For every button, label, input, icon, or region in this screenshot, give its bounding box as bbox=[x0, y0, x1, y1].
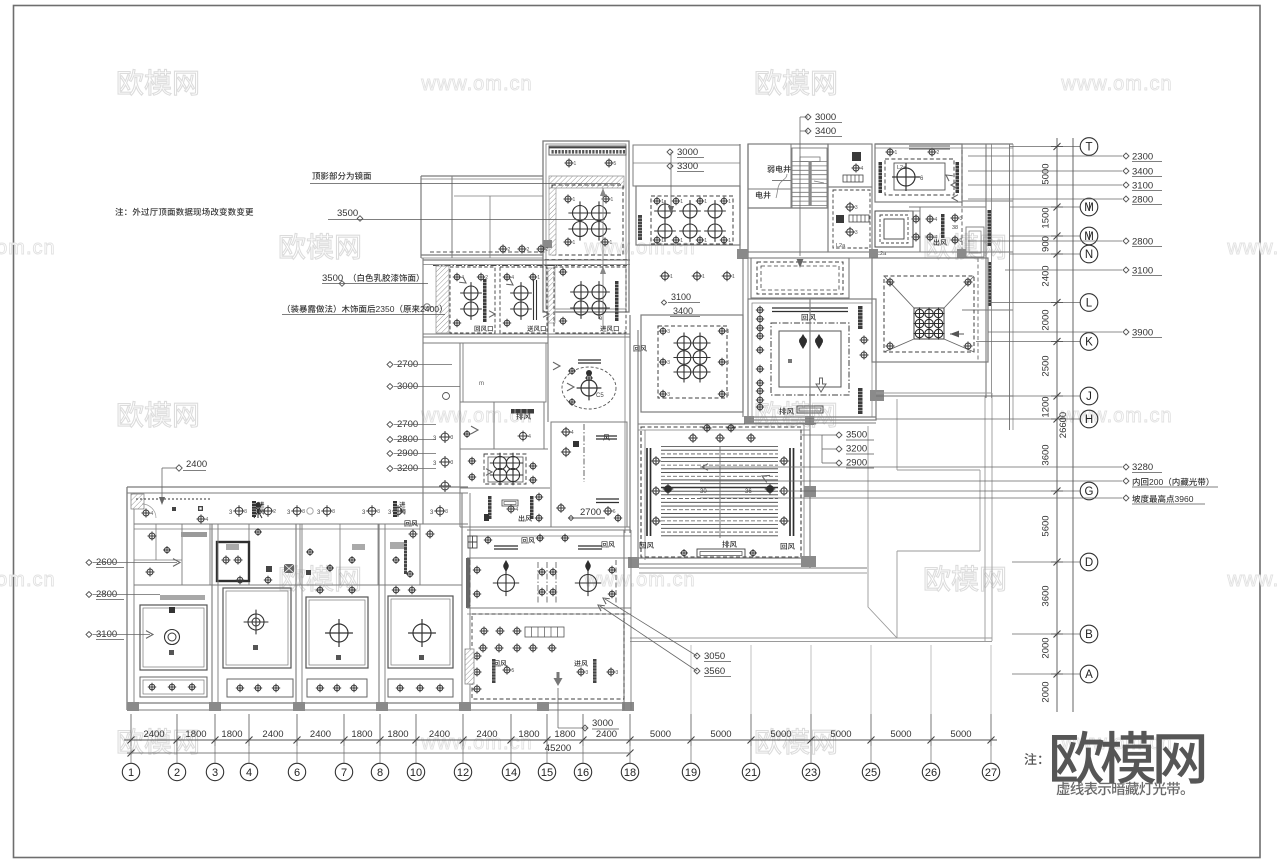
label 电井 bbox=[756, 191, 771, 198]
corridor walls x743-748 bbox=[743, 258, 748, 417]
svg-text:3100: 3100 bbox=[671, 292, 691, 302]
leader 3400 in room N bbox=[670, 306, 700, 317]
svg-text:3900: 3900 bbox=[1132, 328, 1153, 339]
inner partition of shaft room bbox=[772, 180, 791, 182]
svg-text:www.om.cn: www.om.cn bbox=[1226, 569, 1277, 591]
svg-text:3500: 3500 bbox=[337, 208, 358, 219]
stair block walls bbox=[748, 144, 828, 208]
room J grille bar bbox=[941, 214, 945, 238]
svg-text:3050: 3050 bbox=[704, 651, 725, 662]
svg-text:3: 3 bbox=[451, 435, 454, 441]
label 排风 room R bbox=[516, 413, 531, 420]
svg-text:1: 1 bbox=[704, 199, 707, 205]
grid bubble 26 bbox=[922, 746, 939, 781]
grid bubble 4 bbox=[240, 746, 257, 781]
svg-text:4: 4 bbox=[935, 217, 938, 223]
svg-text:4: 4 bbox=[571, 430, 574, 436]
corridor double wall y=252-258 bbox=[737, 249, 1004, 259]
corridor above N small fixtures bbox=[660, 271, 735, 282]
grid bubble 21 bbox=[742, 746, 759, 781]
svg-text:1800: 1800 bbox=[351, 729, 372, 740]
svg-text:2800: 2800 bbox=[1132, 237, 1153, 248]
room K spotlight grid 3x3 bbox=[913, 307, 944, 339]
room M exhaust grille box bbox=[797, 406, 823, 413]
grid bubble 14 bbox=[502, 746, 519, 781]
bottom wall column blocks bbox=[127, 702, 634, 711]
grid bubble 27 bbox=[982, 746, 999, 781]
grille bar above circle room bbox=[578, 359, 601, 361]
svg-text:1: 1 bbox=[661, 199, 664, 205]
room Q walls (big empty room) bbox=[423, 258, 630, 527]
leader 2800 right bbox=[968, 237, 1162, 248]
mid band top wall y258 bbox=[423, 252, 630, 266]
hall V doorway fixtures top bbox=[690, 424, 745, 433]
big bottom room dashed ceiling border bbox=[472, 614, 624, 699]
svg-text:2800: 2800 bbox=[1132, 195, 1153, 206]
wall dashed band below room A bbox=[545, 260, 628, 266]
svg-text:www.om.cn: www.om.cn bbox=[0, 237, 56, 259]
room G chandelier bbox=[886, 148, 953, 191]
right dimension values (rotated) bbox=[1041, 163, 1070, 702]
svg-text:www.om.cn: www.om.cn bbox=[1226, 237, 1277, 259]
fixtures below comb strip bbox=[565, 159, 617, 168]
bedroom 1 wardrobe strip bbox=[140, 677, 207, 697]
svg-text:23: 23 bbox=[805, 767, 817, 779]
leader 2700 interior bbox=[568, 507, 605, 521]
block corridor marks bbox=[468, 534, 602, 549]
bottom leader 3000 bbox=[558, 688, 619, 731]
label 回风 hall V bottom-left bbox=[640, 542, 654, 549]
svg-text:1: 1 bbox=[128, 767, 134, 779]
big bottom room fixture rows bbox=[473, 627, 557, 694]
door hinge symbol at band left wall bbox=[421, 304, 433, 310]
svg-text:3: 3 bbox=[667, 392, 670, 398]
svg-text:1: 1 bbox=[661, 238, 664, 244]
svg-text:5000: 5000 bbox=[770, 729, 791, 740]
room R walls 排风 bbox=[460, 402, 548, 449]
room F ceiling dashed bbox=[833, 190, 870, 248]
svg-text:38: 38 bbox=[952, 225, 958, 231]
svg-text:3: 3 bbox=[726, 392, 729, 398]
svg-text:1: 1 bbox=[670, 274, 673, 280]
svg-text:36: 36 bbox=[745, 489, 752, 495]
svg-text:4: 4 bbox=[528, 434, 531, 440]
svg-text:2400: 2400 bbox=[429, 729, 450, 740]
right-mid leader stack 3500/3200/2900 bbox=[800, 430, 874, 469]
right dimension chain line bbox=[1051, 138, 1073, 712]
mid band bottom wall y334 bbox=[423, 333, 630, 335]
bedroom 1 ceiling bbox=[140, 595, 207, 670]
svg-text:15: 15 bbox=[541, 767, 553, 779]
watermark 欧模网 bbox=[118, 69, 198, 95]
room L walls bbox=[751, 258, 849, 298]
room A comb ceiling strip bbox=[549, 146, 626, 155]
bottom leaders 3050/3560 bbox=[596, 595, 731, 677]
room G walls bbox=[875, 144, 962, 202]
svg-text:3200: 3200 bbox=[846, 444, 867, 455]
mid room 2 chandelier bbox=[575, 560, 616, 606]
svg-text:3: 3 bbox=[960, 216, 963, 222]
bedroom 2 ceiling bbox=[223, 576, 291, 668]
label 送风口 room2 bbox=[527, 326, 546, 332]
svg-text:900: 900 bbox=[1041, 236, 1052, 252]
svg-text:5: 5 bbox=[512, 668, 515, 674]
svg-text:1: 1 bbox=[680, 199, 683, 205]
svg-text:3: 3 bbox=[586, 670, 589, 676]
mid band room 1 chandeliers bbox=[453, 273, 495, 327]
label 回风 room M bbox=[802, 314, 816, 321]
room1 small marks bbox=[142, 506, 209, 524]
leader 2800 right bbox=[968, 195, 1162, 206]
svg-text:1: 1 bbox=[680, 238, 683, 244]
svg-text:0: 0 bbox=[390, 304, 395, 314]
svg-text:3: 3 bbox=[332, 509, 335, 515]
hall V fixtures bbox=[651, 433, 789, 526]
left bottom leaders 2600/2800/3100 bbox=[86, 557, 180, 568]
svg-text:2400: 2400 bbox=[262, 729, 283, 740]
grid bubble A bbox=[1080, 665, 1098, 683]
top leader 3000/3300 bbox=[667, 147, 704, 214]
bedroom 2 wardrobe strip bbox=[227, 679, 293, 697]
svg-text:L2a: L2a bbox=[836, 243, 846, 249]
svg-text:www.om.cn: www.om.cn bbox=[1060, 405, 1172, 427]
room N chandeliers 2x3 bbox=[673, 332, 710, 382]
room N border fixtures bbox=[659, 327, 730, 398]
label 排风 hall V bottom bbox=[722, 541, 737, 548]
labels 回风 at N left bbox=[634, 345, 647, 351]
room B terrace walls bbox=[633, 145, 740, 186]
leader 3100 right bbox=[968, 181, 1162, 192]
svg-text:4: 4 bbox=[516, 507, 519, 513]
room N walls bbox=[641, 315, 743, 412]
svg-text:1200: 1200 bbox=[1041, 396, 1052, 417]
bottom-center block walls bbox=[467, 530, 631, 710]
svg-text:3300: 3300 bbox=[677, 161, 698, 172]
svg-text:2400: 2400 bbox=[596, 729, 617, 740]
bedroom 4 wardrobe strip bbox=[388, 679, 453, 697]
svg-text:5000: 5000 bbox=[830, 729, 851, 740]
svg-text:2400: 2400 bbox=[476, 729, 497, 740]
svg-text:3: 3 bbox=[212, 767, 218, 779]
svg-text:3: 3 bbox=[616, 670, 619, 676]
bedroom 3 wardrobe strip bbox=[307, 679, 367, 697]
svg-text:4: 4 bbox=[935, 235, 938, 241]
room A hatched beam band bbox=[549, 176, 624, 188]
ceiling-height leader with up arrows in room A bbox=[600, 188, 606, 330]
leader 内回200（内藏光带） bbox=[700, 477, 1218, 487]
hall V walls bbox=[638, 299, 816, 568]
svg-text:0: 0 bbox=[1189, 494, 1194, 504]
svg-text:2: 2 bbox=[174, 767, 180, 779]
leader 2300 right bbox=[968, 152, 1162, 163]
watermark 欧模网 bbox=[118, 728, 198, 754]
svg-text:2400: 2400 bbox=[310, 729, 331, 740]
note 虚线表示暗藏灯光带 bbox=[1057, 782, 1186, 796]
svg-text:1: 1 bbox=[732, 274, 735, 280]
svg-text:2400: 2400 bbox=[143, 729, 164, 740]
right narrow rooms window bars bbox=[951, 182, 991, 306]
room M pendant fixtures bbox=[788, 334, 823, 363]
mid small room with slats bbox=[538, 562, 557, 604]
grid bubble B bbox=[1080, 625, 1098, 643]
svg-text:4: 4 bbox=[511, 275, 514, 281]
hatch square top-left corner bbox=[131, 494, 144, 509]
room M walls bbox=[748, 299, 876, 420]
small fixture row above band bbox=[499, 245, 549, 254]
svg-text:1: 1 bbox=[895, 150, 898, 156]
logo 欧模网 bbox=[1052, 731, 1204, 784]
svg-text:0: 0 bbox=[1159, 477, 1164, 487]
room U marks bbox=[556, 427, 622, 522]
left leader stack 2700/3000 bbox=[387, 359, 452, 370]
leader 3900 right bbox=[988, 328, 1162, 339]
leader 3500 白色乳胶漆饰面 bbox=[322, 273, 428, 286]
mid band room 2 chandeliers bbox=[503, 273, 549, 327]
svg-text:12: 12 bbox=[457, 767, 469, 779]
svg-text:1: 1 bbox=[702, 274, 705, 280]
mid band room 3 dashed ceiling bbox=[554, 267, 626, 333]
mid rooms walls bbox=[466, 558, 631, 614]
leader 木饰面后2350 bbox=[282, 304, 445, 315]
svg-text:1800: 1800 bbox=[185, 729, 206, 740]
note text top-left bbox=[115, 208, 253, 216]
svg-text:3100: 3100 bbox=[1132, 181, 1153, 192]
hall V dashed ceiling border bbox=[641, 427, 801, 557]
svg-text:3: 3 bbox=[855, 205, 858, 211]
svg-text:19: 19 bbox=[685, 767, 697, 779]
watermark 欧模网 bbox=[925, 233, 1005, 259]
hall V bottom wall bbox=[628, 556, 816, 568]
svg-text:T: T bbox=[1085, 142, 1092, 154]
room K pyramid diagonals and center square bbox=[884, 276, 974, 352]
watermark 欧模网 bbox=[925, 565, 1005, 591]
svg-text:7: 7 bbox=[341, 767, 347, 779]
room F marks bbox=[836, 202, 869, 249]
leader 3100 in corridor bbox=[661, 292, 700, 305]
svg-text:4: 4 bbox=[206, 517, 209, 523]
label 出风 room J bbox=[934, 239, 947, 246]
label 排风 room M bbox=[779, 408, 794, 415]
svg-text:2: 2 bbox=[527, 247, 530, 253]
svg-text:A: A bbox=[1085, 669, 1093, 681]
hall V striped ceiling (wood slats) bbox=[661, 446, 778, 538]
svg-text:www.om.cn: www.om.cn bbox=[420, 405, 532, 427]
svg-text:2: 2 bbox=[485, 275, 488, 281]
svg-text:2300: 2300 bbox=[1132, 152, 1153, 163]
watermark 欧模网 bbox=[118, 401, 198, 427]
label 回风 near x410 bbox=[404, 520, 435, 574]
room1 dashed ceiling border top bbox=[136, 498, 210, 500]
svg-text:0: 0 bbox=[434, 304, 439, 314]
svg-text:26600: 26600 bbox=[1058, 412, 1069, 438]
right narrow rooms walls bbox=[875, 144, 1013, 430]
room R fixture and grille bbox=[463, 409, 534, 441]
svg-text:2000: 2000 bbox=[1041, 681, 1052, 702]
svg-text:1: 1 bbox=[611, 197, 614, 203]
svg-text:6: 6 bbox=[294, 767, 300, 779]
svg-text:4: 4 bbox=[151, 511, 154, 517]
svg-text:2900: 2900 bbox=[846, 458, 867, 469]
svg-text:5000: 5000 bbox=[950, 729, 971, 740]
svg-text:B: B bbox=[1085, 629, 1093, 641]
label 进风口 room3 bbox=[600, 326, 619, 332]
room A left wing walls bbox=[421, 176, 543, 258]
svg-text:1: 1 bbox=[573, 197, 576, 203]
room I nested-square ceiling bbox=[875, 211, 913, 257]
svg-text:3: 3 bbox=[451, 460, 454, 466]
svg-text:3: 3 bbox=[667, 329, 670, 335]
room K corner fixtures bbox=[886, 278, 973, 351]
svg-text:3600: 3600 bbox=[1041, 444, 1052, 465]
svg-text:3400: 3400 bbox=[815, 126, 836, 137]
label 回风 room U bbox=[603, 434, 610, 440]
hall V side curtain bars bbox=[647, 448, 794, 536]
svg-text:3280: 3280 bbox=[1132, 462, 1153, 473]
svg-text:3400: 3400 bbox=[673, 306, 693, 316]
svg-text:10: 10 bbox=[410, 767, 422, 779]
room B chandeliers bbox=[653, 197, 732, 244]
svg-text:L: L bbox=[1086, 298, 1093, 310]
room M ceiling dash-dot rect bbox=[771, 323, 849, 395]
big room grille bars bbox=[492, 659, 619, 683]
svg-text:21: 21 bbox=[745, 767, 757, 779]
svg-text:2: 2 bbox=[937, 150, 940, 156]
svg-text:26: 26 bbox=[925, 767, 937, 779]
svg-text:4: 4 bbox=[861, 166, 864, 172]
watermark 欧模网 bbox=[756, 401, 836, 427]
svg-text:J: J bbox=[1086, 391, 1092, 403]
grid bubble T bbox=[1080, 138, 1098, 156]
grid bubble M bbox=[1080, 198, 1098, 216]
grid bubble 12 bbox=[454, 746, 471, 781]
leader 顶影部分为镜面 bbox=[310, 172, 620, 184]
big room hatch door bbox=[465, 649, 474, 684]
bedroom dividing walls bbox=[212, 493, 470, 710]
leader 2400 left bbox=[159, 459, 207, 505]
label 进风 big room bbox=[574, 660, 588, 666]
column block at A mid wall bbox=[543, 240, 552, 248]
svg-text:www.om.cn: www.om.cn bbox=[583, 569, 695, 591]
room G balcony rail bbox=[909, 146, 950, 149]
svg-text:2000: 2000 bbox=[1041, 637, 1052, 658]
grid bubble 6 bbox=[288, 746, 305, 781]
svg-text:8: 8 bbox=[377, 767, 383, 779]
grid bubble 3 bbox=[206, 746, 223, 781]
svg-text:30: 30 bbox=[700, 489, 707, 495]
leader arrow into room L bbox=[797, 259, 804, 268]
svg-text:3: 3 bbox=[726, 360, 729, 366]
svg-text:www.om.cn: www.om.cn bbox=[420, 73, 532, 95]
total dimension 45200 line bbox=[127, 743, 634, 757]
svg-text:3: 3 bbox=[855, 230, 858, 236]
bottom dimension values bbox=[143, 729, 971, 740]
grid bubble J bbox=[1080, 387, 1098, 405]
svg-text:2400: 2400 bbox=[1041, 265, 1052, 286]
circle ceiling feature bbox=[553, 362, 616, 409]
mid band room 2 dashed ceiling bbox=[500, 267, 547, 333]
grid bubble G bbox=[1080, 482, 1098, 500]
svg-text:4: 4 bbox=[246, 767, 252, 779]
leader 3400 right bbox=[968, 167, 1162, 178]
svg-text:1: 1 bbox=[573, 240, 576, 246]
grid bubble 25 bbox=[862, 746, 879, 781]
circle room walls bbox=[548, 315, 630, 533]
svg-text:2: 2 bbox=[546, 247, 549, 253]
svg-text:3000: 3000 bbox=[677, 147, 698, 158]
svg-text:2000: 2000 bbox=[1041, 309, 1052, 330]
hall V wall column at G line bbox=[804, 486, 816, 497]
svg-text:m: m bbox=[479, 381, 484, 387]
mid room 1 chandelier bbox=[470, 560, 519, 606]
svg-text:K: K bbox=[1085, 337, 1093, 349]
svg-text:2: 2 bbox=[508, 247, 511, 253]
svg-text:1: 1 bbox=[574, 161, 577, 167]
watermark 欧模网 bbox=[280, 565, 360, 591]
svg-text:1: 1 bbox=[728, 199, 731, 205]
room M bottom wall and columns bbox=[744, 390, 884, 425]
grid bubble M bbox=[1080, 227, 1098, 245]
leader 3500 mid bbox=[328, 208, 605, 221]
small rooms fixtures and marks bbox=[146, 528, 414, 578]
room N ceiling dashed rect bbox=[658, 326, 727, 398]
room M right window grilles bbox=[858, 306, 869, 414]
room1 door arc bbox=[142, 504, 156, 518]
svg-text:5600: 5600 bbox=[1041, 515, 1052, 536]
svg-text:N: N bbox=[1085, 249, 1093, 261]
svg-text:3100: 3100 bbox=[1132, 266, 1153, 277]
svg-text:3: 3 bbox=[726, 329, 729, 335]
svg-text:45200: 45200 bbox=[545, 743, 571, 754]
room F walls bbox=[828, 187, 872, 252]
room J walls bbox=[909, 207, 986, 252]
room T walls 出风 bbox=[423, 488, 630, 527]
lift shaft (thick walls) bbox=[217, 542, 249, 581]
room E equipment marks bbox=[843, 152, 864, 182]
label 出风 room T bbox=[519, 515, 532, 522]
label 回风口 room1 bbox=[475, 326, 493, 332]
left leader stack 2700/2800/2900/3200 bbox=[387, 419, 436, 430]
svg-text:M: M bbox=[1084, 202, 1094, 214]
leader 3280 bbox=[700, 462, 1162, 473]
svg-text:5000: 5000 bbox=[1041, 163, 1052, 184]
grid bubble 15 bbox=[538, 746, 555, 781]
grid bubble L bbox=[1080, 294, 1098, 312]
svg-text:3000: 3000 bbox=[815, 112, 836, 123]
staircase treads bbox=[792, 148, 827, 208]
svg-text:2700: 2700 bbox=[580, 507, 601, 518]
room K walls bbox=[872, 258, 988, 362]
left small room column fixtures bbox=[433, 393, 454, 493]
room M return-air grille bar bbox=[772, 307, 848, 309]
big room up arrow bbox=[554, 672, 563, 686]
svg-text:3: 3 bbox=[667, 360, 670, 366]
hall V exhaust grille box bbox=[680, 549, 757, 558]
svg-text:www.om.cn: www.om.cn bbox=[0, 569, 56, 591]
room U walls (center) bbox=[551, 422, 627, 527]
svg-text:6: 6 bbox=[613, 509, 616, 515]
svg-text:H: H bbox=[1085, 414, 1093, 426]
room A outer walls (tall top-center room) bbox=[543, 141, 629, 312]
room B walls bbox=[636, 186, 740, 245]
mid band room 1 dashed ceiling bbox=[450, 267, 495, 333]
grid bubble 16 bbox=[574, 746, 591, 781]
bedroom 4 ceiling bbox=[388, 586, 453, 668]
grid bubble 1 bbox=[122, 746, 139, 781]
svg-text:1800: 1800 bbox=[554, 729, 575, 740]
svg-text:3: 3 bbox=[302, 509, 305, 515]
svg-text:www.om.cn: www.om.cn bbox=[1060, 73, 1172, 95]
svg-text:1800: 1800 bbox=[518, 729, 539, 740]
